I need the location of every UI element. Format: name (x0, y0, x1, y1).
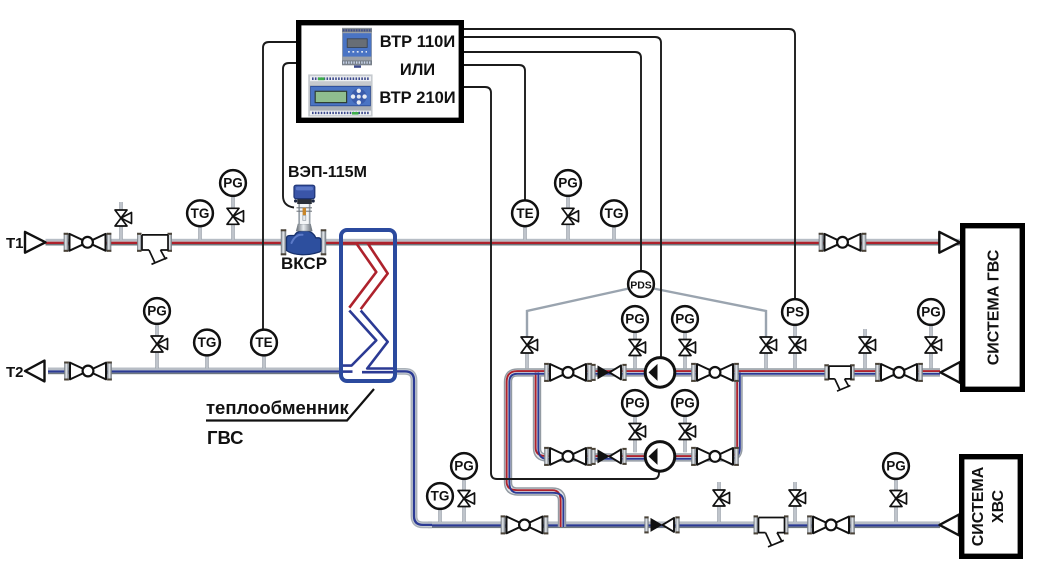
svg-text:TE: TE (255, 335, 272, 350)
svg-text:ГВС: ГВС (207, 427, 244, 448)
svg-text:PG: PG (886, 459, 906, 474)
svg-text:PG: PG (675, 312, 695, 327)
svg-text:TG: TG (431, 489, 450, 504)
svg-text:PDS: PDS (630, 280, 652, 292)
svg-text:СИСТЕМА: СИСТЕМА (970, 466, 987, 546)
svg-text:PS: PS (786, 305, 804, 320)
svg-text:ВЭП-115М: ВЭП-115М (288, 164, 367, 181)
svg-text:ВТР 110И: ВТР 110И (380, 33, 455, 51)
svg-text:TG: TG (198, 335, 217, 350)
svg-text:TE: TE (516, 206, 533, 221)
svg-text:TG: TG (605, 206, 624, 221)
svg-text:Т1: Т1 (6, 235, 24, 252)
svg-text:СИСТЕМА ГВС: СИСТЕМА ГВС (986, 249, 1003, 365)
svg-text:PG: PG (147, 304, 167, 319)
svg-text:PG: PG (223, 176, 243, 191)
svg-text:PG: PG (675, 396, 695, 411)
svg-text:PG: PG (625, 312, 645, 327)
svg-text:ВТР 210И: ВТР 210И (379, 89, 455, 107)
svg-text:ВКСР: ВКСР (281, 254, 327, 273)
svg-text:TG: TG (191, 206, 210, 221)
svg-text:PG: PG (625, 396, 645, 411)
svg-text:PG: PG (454, 459, 474, 474)
svg-text:ИЛИ: ИЛИ (400, 61, 435, 79)
svg-text:PG: PG (921, 305, 941, 320)
svg-text:Т2: Т2 (6, 364, 24, 381)
svg-text:теплообменник: теплообменник (206, 397, 350, 418)
svg-text:PG: PG (558, 176, 578, 191)
svg-text:ХВС: ХВС (990, 489, 1007, 523)
